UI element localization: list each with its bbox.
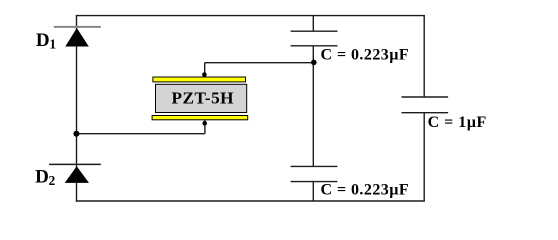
svg-text:D: D (36, 30, 50, 51)
svg-text:2: 2 (49, 173, 56, 188)
svg-text:PZT-5H: PZT-5H (172, 88, 235, 107)
svg-text:D: D (35, 167, 49, 188)
svg-text:1: 1 (49, 37, 56, 52)
svg-text:C = 0.223µF: C = 0.223µF (321, 47, 410, 64)
svg-text:C = 0.223µF: C = 0.223µF (321, 182, 410, 199)
svg-text:C = 1µF: C = 1µF (428, 114, 487, 131)
